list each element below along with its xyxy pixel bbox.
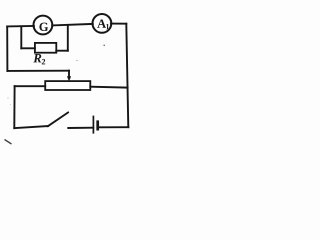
wire A1 to top-right corner [111, 23, 126, 25]
wire R2 left lead [21, 47, 35, 49]
battery cell long plate (positive) [92, 116, 94, 134]
label R2 [33, 54, 45, 64]
wire top-left horizontal [7, 25, 34, 27]
wire right vertical [126, 24, 128, 128]
scan speck bottom-left corner [5, 140, 12, 145]
wire R2 branch right vertical [67, 26, 69, 50]
wire rheostat left lead [15, 85, 46, 87]
wire R2 branch left vertical [20, 26, 22, 48]
rheostat box [45, 81, 90, 90]
wire bottom-right (battery to right corner) [98, 126, 128, 128]
rheostat wiper arrowhead [67, 76, 71, 81]
galvanometer G [34, 16, 53, 35]
wire battery to switch [68, 127, 93, 129]
resistor R2 box [35, 43, 56, 53]
wire lower-left vertical [13, 86, 15, 128]
ammeter A1 [93, 14, 112, 33]
wire wiper horizontal [7, 70, 69, 72]
wire wiper vertical drop [68, 71, 70, 77]
wire G to A1 [52, 24, 93, 26]
battery cell short plate (negative) [96, 120, 99, 130]
wire R2 right lead [56, 50, 68, 52]
wire upper-left vertical [6, 26, 8, 71]
switch S lever [48, 112, 68, 126]
wire rheostat right lead [90, 86, 127, 89]
scan speck near ammeter [7, 45, 105, 106]
wire bottom-left (switch to left corner) [14, 126, 48, 128]
